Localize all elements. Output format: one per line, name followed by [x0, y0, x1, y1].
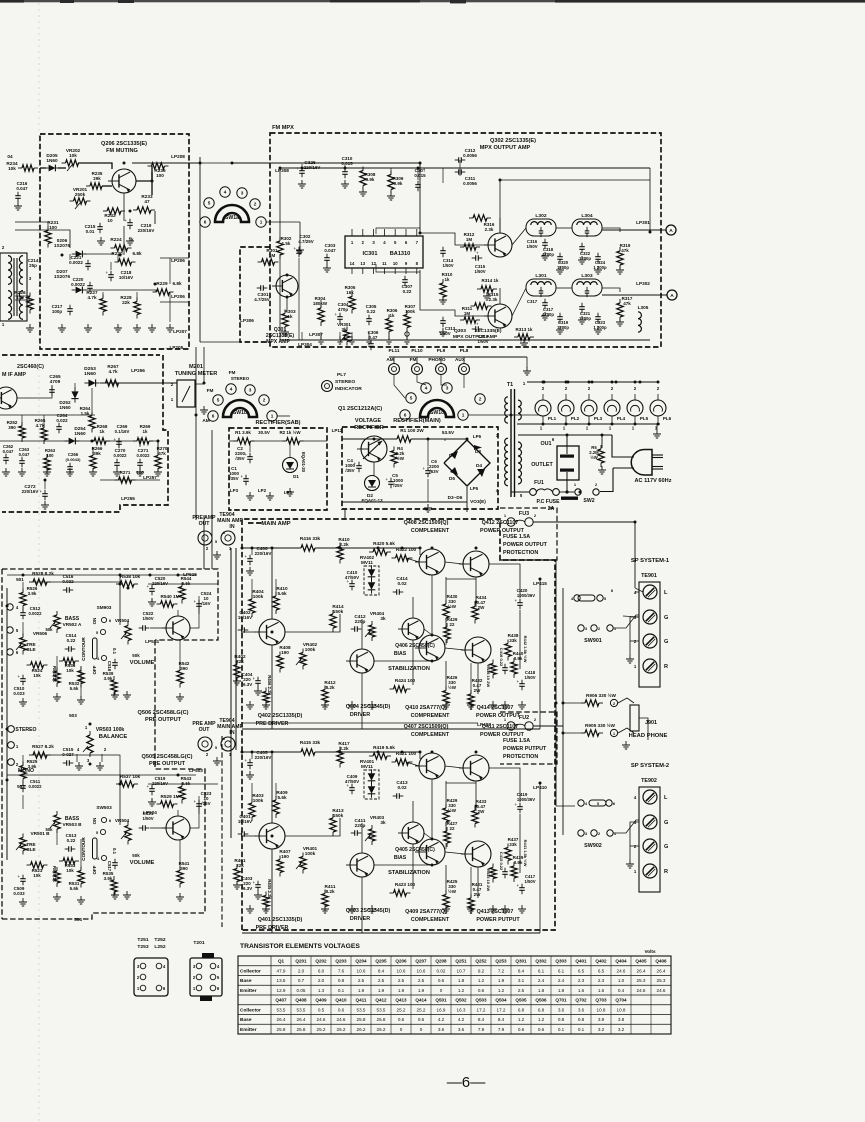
svg-text:25.2: 25.2 — [317, 1027, 326, 1032]
svg-text:8.4: 8.4 — [498, 1017, 505, 1022]
svg-text:2.3: 2.3 — [578, 978, 585, 983]
svg-text:LP206: LP206 — [171, 294, 185, 299]
svg-text:1N60: 1N60 — [59, 405, 71, 410]
svg-text:SP SYSTEM-1: SP SYSTEM-1 — [631, 558, 670, 564]
svg-text:10/16V: 10/16V — [238, 615, 252, 620]
svg-text:3k: 3k — [380, 616, 386, 621]
svg-text:POWER OUTPUT: POWER OUTPUT — [503, 542, 548, 548]
svg-text:Q408 2SC1509(Q): Q408 2SC1509(Q) — [404, 520, 449, 526]
svg-text:/16V: /16V — [201, 801, 210, 806]
svg-text:Base: Base — [240, 978, 252, 984]
svg-text:Q302 2SC1335(E): Q302 2SC1335(E) — [490, 138, 536, 144]
svg-text:LP208: LP208 — [171, 154, 185, 159]
svg-text:PL5: PL5 — [640, 416, 649, 421]
svg-text:2: 2 — [2, 245, 5, 250]
svg-text:1: 1 — [504, 513, 507, 518]
svg-text:2.5: 2.5 — [518, 988, 525, 993]
svg-text:6.0: 6.0 — [318, 968, 325, 973]
svg-text:17.2: 17.2 — [497, 1007, 506, 1012]
svg-text:1: 1 — [614, 626, 617, 631]
svg-text:6.8: 6.8 — [538, 1007, 545, 1012]
svg-text:C517: C517 — [107, 861, 112, 872]
svg-text:0: 0 — [420, 1027, 423, 1032]
svg-text:0.0022: 0.0022 — [114, 453, 128, 458]
svg-text:Collector: Collector — [240, 968, 261, 974]
svg-text:5: 5 — [208, 201, 211, 206]
svg-text:26.2: 26.2 — [357, 1027, 366, 1032]
svg-text:10.6: 10.6 — [357, 968, 366, 973]
svg-text:STABILIZATION: STABILIZATION — [388, 666, 430, 672]
svg-text:PL8: PL8 — [460, 348, 469, 353]
svg-text:0.1: 0.1 — [558, 1027, 565, 1032]
svg-text:R314 1k: R314 1k — [482, 278, 499, 283]
svg-text:4.7/25V: 4.7/25V — [254, 297, 269, 302]
svg-text:0.22: 0.22 — [67, 638, 76, 643]
svg-text:+: + — [517, 883, 520, 888]
svg-text:0.1: 0.1 — [112, 848, 117, 855]
svg-text:Volts: Volts — [644, 949, 656, 954]
svg-text:1.8: 1.8 — [538, 988, 545, 993]
svg-text:G: G — [664, 820, 668, 826]
svg-text:R527 8.2k: R527 8.2k — [32, 744, 54, 749]
svg-text:R419 5.6k: R419 5.6k — [373, 745, 395, 750]
svg-text:2: 2 — [565, 386, 568, 391]
svg-text:VO3(E): VO3(E) — [470, 499, 486, 504]
svg-text:4: 4 — [77, 747, 80, 752]
svg-text:AM: AM — [202, 418, 209, 423]
svg-text:FUSE 1.5A: FUSE 1.5A — [503, 534, 530, 540]
svg-text:1 200p: 1 200p — [593, 325, 607, 330]
svg-text:3.6: 3.6 — [578, 1007, 585, 1012]
svg-text:PL3: PL3 — [594, 416, 603, 421]
svg-text:+: + — [125, 218, 128, 223]
svg-text:T1: T1 — [507, 382, 513, 388]
svg-text:+: + — [515, 802, 518, 807]
svg-text:2: 2 — [104, 747, 107, 752]
svg-text:8: 8 — [416, 261, 419, 266]
svg-text:FM MUTING: FM MUTING — [106, 148, 138, 154]
svg-text:Q206: Q206 — [395, 959, 407, 964]
svg-text:R416 33k: R416 33k — [300, 536, 321, 541]
svg-text:COMPLEMENT: COMPLEMENT — [411, 528, 450, 534]
svg-text:2W: 2W — [478, 809, 485, 814]
svg-text:PL9: PL9 — [437, 348, 446, 353]
svg-text:1: 1 — [632, 426, 635, 431]
svg-text:Q252: Q252 — [475, 959, 487, 964]
svg-text:100p: 100p — [52, 309, 62, 314]
svg-text:33k: 33k — [509, 638, 517, 643]
svg-text:100k: 100k — [305, 851, 316, 856]
svg-text:Q1 2SC1212A(C): Q1 2SC1212A(C) — [338, 406, 382, 412]
svg-text:TE901: TE901 — [641, 573, 657, 579]
svg-text:+: + — [354, 461, 357, 466]
svg-text:6: 6 — [217, 986, 220, 991]
svg-text:T253: T253 — [137, 944, 148, 950]
svg-text:10.7: 10.7 — [457, 968, 466, 973]
svg-text:0.1: 0.1 — [112, 648, 117, 655]
svg-text:2.2k: 2.2k — [339, 542, 349, 547]
svg-text:50k: 50k — [132, 653, 140, 658]
svg-text:3: 3 — [249, 388, 252, 393]
svg-text:11: 11 — [382, 261, 387, 266]
svg-text:6.1: 6.1 — [538, 968, 545, 973]
svg-text:LP301: LP301 — [636, 220, 650, 225]
svg-text:3.8: 3.8 — [598, 1017, 605, 1022]
svg-text:2: 2 — [534, 717, 537, 722]
svg-text:10.8: 10.8 — [617, 1007, 626, 1012]
svg-text:1k: 1k — [100, 429, 105, 434]
svg-text:4.2: 4.2 — [458, 1017, 465, 1022]
svg-text:IN: IN — [229, 730, 234, 736]
svg-text:+: + — [515, 598, 518, 603]
svg-text:AC 117V 60Hz: AC 117V 60Hz — [634, 478, 671, 484]
svg-text:Q406: Q406 — [655, 959, 667, 964]
svg-text:4: 4 — [230, 387, 233, 392]
svg-text:PRE OUTPUT: PRE OUTPUT — [149, 761, 186, 767]
svg-text:29k: 29k — [93, 176, 101, 181]
svg-text:Q413: Q413 — [395, 998, 407, 1003]
svg-text:0.6: 0.6 — [438, 978, 445, 983]
svg-text:0.047: 0.047 — [324, 248, 336, 253]
svg-text:Q1: Q1 — [278, 959, 285, 964]
svg-text:1/50V: 1/50V — [524, 675, 535, 680]
svg-text:390: 390 — [180, 666, 188, 671]
svg-text:5: 5 — [215, 539, 218, 544]
svg-text:12.9: 12.9 — [277, 988, 286, 993]
svg-text:0: 0 — [440, 988, 443, 993]
svg-text:0.6: 0.6 — [518, 1027, 525, 1032]
svg-text:1: 1 — [634, 869, 637, 874]
svg-text:470p: 470p — [338, 307, 348, 312]
svg-text:6.8: 6.8 — [518, 1007, 525, 1012]
svg-text:24.6: 24.6 — [617, 968, 626, 973]
svg-text:+: + — [147, 784, 150, 789]
svg-text:STEREO: STEREO — [15, 727, 36, 733]
svg-text:2: 2 — [193, 975, 196, 980]
svg-text:5: 5 — [410, 396, 413, 401]
svg-text:MPX OUTPUT AMP: MPX OUTPUT AMP — [480, 145, 531, 151]
svg-text:5.6k: 5.6k — [70, 686, 79, 691]
svg-text:OUT: OUT — [199, 727, 211, 733]
svg-text:R441 1.5k ½W: R441 1.5k ½W — [523, 840, 528, 867]
svg-text:0.015: 0.015 — [341, 161, 353, 166]
svg-text:2.4: 2.4 — [538, 978, 545, 983]
svg-text:1M: 1M — [466, 237, 472, 242]
svg-text:Q401 2SC1335(D): Q401 2SC1335(D) — [258, 917, 303, 923]
svg-text:LP407: LP407 — [477, 722, 491, 727]
svg-text:6: 6 — [223, 530, 226, 535]
svg-text:LP302: LP302 — [636, 281, 650, 286]
svg-text:7.9: 7.9 — [478, 1027, 485, 1032]
svg-text:7.6: 7.6 — [338, 968, 345, 973]
svg-text:1.2: 1.2 — [478, 978, 485, 983]
svg-text:1.9: 1.9 — [498, 978, 505, 983]
svg-text:2.5: 2.5 — [358, 978, 365, 983]
svg-text:9: 9 — [405, 261, 408, 266]
svg-text:10.6: 10.6 — [417, 968, 426, 973]
svg-text:1200p: 1200p — [557, 265, 569, 270]
svg-text:PL11: PL11 — [389, 348, 400, 353]
svg-text:220/16V: 220/16V — [22, 489, 39, 494]
svg-text:2: 2 — [206, 546, 209, 551]
svg-text:390: 390 — [8, 425, 16, 430]
svg-text:PL6: PL6 — [663, 416, 672, 421]
svg-text:0.8: 0.8 — [578, 1017, 585, 1022]
svg-text:LP503: LP503 — [189, 768, 203, 773]
svg-text:2: 2 — [634, 386, 637, 391]
svg-text:+: + — [253, 676, 256, 681]
svg-text:+: + — [18, 674, 21, 679]
svg-text:4: 4 — [97, 656, 100, 661]
svg-text:6: 6 — [552, 437, 555, 442]
svg-text:53.5: 53.5 — [277, 1007, 286, 1012]
svg-text:R: R — [664, 664, 668, 670]
svg-text:190: 190 — [281, 650, 289, 655]
svg-text:0.047: 0.047 — [16, 186, 28, 191]
svg-text:4: 4 — [97, 856, 100, 861]
svg-text:1: 1 — [613, 731, 616, 736]
svg-text:4.7k: 4.7k — [36, 423, 45, 428]
svg-text:+: + — [194, 799, 197, 804]
svg-text:5: 5 — [217, 398, 220, 403]
svg-text:D3~D6: D3~D6 — [448, 495, 463, 500]
svg-text:—6—: —6— — [447, 1074, 487, 1091]
svg-text:+: + — [517, 679, 520, 684]
svg-text:5: 5 — [215, 745, 218, 750]
svg-text:Q407 2SC1509(Q): Q407 2SC1509(Q) — [404, 724, 449, 730]
svg-text:5: 5 — [394, 240, 397, 245]
svg-text:R1 100 2W: R1 100 2W — [400, 428, 424, 433]
svg-text:1.6: 1.6 — [598, 988, 605, 993]
svg-text:1.5k: 1.5k — [282, 241, 291, 246]
svg-text:Q505: Q505 — [515, 998, 527, 1003]
svg-text:Base: Base — [240, 1017, 252, 1023]
svg-text:26.4: 26.4 — [637, 968, 646, 973]
svg-text:Q205: Q205 — [375, 959, 387, 964]
svg-text:Q504: Q504 — [495, 998, 507, 1003]
svg-text:VR504: VR504 — [115, 818, 130, 823]
svg-text:7: 7 — [416, 240, 419, 245]
svg-text:←LP205: ←LP205 — [165, 345, 184, 350]
svg-text:+: + — [194, 599, 197, 604]
svg-text:½W: ½W — [448, 684, 457, 690]
svg-text:3: 3 — [241, 191, 244, 196]
svg-text:6: 6 — [404, 413, 407, 418]
svg-text:Q402 2SC1335(D): Q402 2SC1335(D) — [258, 713, 303, 719]
svg-text:1: 1 — [16, 744, 19, 749]
svg-text:Emitter: Emitter — [240, 988, 257, 994]
svg-text:0.033: 0.033 — [13, 891, 25, 896]
svg-text:Q407: Q407 — [275, 998, 287, 1003]
svg-text:1 200p: 1 200p — [593, 265, 607, 270]
svg-text:2.5: 2.5 — [378, 978, 385, 983]
svg-text:6.1: 6.1 — [558, 968, 565, 973]
svg-text:Q303: Q303 — [454, 328, 466, 334]
svg-text:0.02: 0.02 — [397, 581, 407, 586]
svg-text:4: 4 — [224, 190, 227, 195]
svg-text:LP256: LP256 — [131, 368, 145, 373]
svg-text:/6.3V: /6.3V — [242, 886, 252, 891]
svg-text:+: + — [253, 880, 256, 885]
svg-text:2: 2 — [263, 398, 266, 403]
svg-text:4709: 4709 — [50, 379, 61, 384]
svg-text:25.8: 25.8 — [377, 1017, 386, 1022]
svg-text:10: 10 — [393, 261, 398, 266]
svg-text:1: 1 — [85, 725, 88, 730]
svg-text:6: 6 — [212, 414, 215, 419]
svg-text:Q409: Q409 — [315, 998, 327, 1003]
svg-text:30.5V: 30.5V — [258, 430, 270, 435]
svg-text:100: 100 — [49, 225, 57, 230]
svg-text:Q414: Q414 — [415, 998, 427, 1003]
svg-text:POWER OUTPUT: POWER OUTPUT — [476, 713, 521, 719]
svg-text:P.C FUSE: P.C FUSE — [536, 499, 560, 505]
svg-text:/35V: /35V — [229, 476, 238, 481]
svg-text:+: + — [245, 452, 248, 457]
svg-text:4.2: 4.2 — [438, 1017, 445, 1022]
svg-text:0.0022: 0.0022 — [29, 611, 43, 616]
svg-text:RECTIFIER(MAIN): RECTIFIER(MAIN) — [393, 418, 441, 424]
svg-text:26.4: 26.4 — [277, 1017, 286, 1022]
svg-text:250k: 250k — [75, 192, 86, 197]
svg-text:Q414 2SC1107: Q414 2SC1107 — [477, 705, 514, 711]
svg-text:6.8k: 6.8k — [172, 281, 182, 286]
svg-text:1: 1 — [2, 322, 5, 327]
svg-text:16.9: 16.9 — [437, 1007, 446, 1012]
svg-text:0.0056: 0.0056 — [463, 181, 477, 186]
svg-text:3: 3 — [446, 386, 449, 391]
svg-text:53.5V: 53.5V — [442, 430, 455, 435]
svg-text:7.2: 7.2 — [498, 968, 505, 973]
svg-text:SW1c: SW1c — [430, 410, 444, 416]
svg-text:2: 2 — [598, 626, 601, 631]
svg-text:3: 3 — [585, 831, 588, 836]
svg-text:3.9k: 3.9k — [514, 656, 523, 661]
svg-text:10.6: 10.6 — [397, 968, 406, 973]
svg-text:220/16V: 220/16V — [152, 581, 168, 586]
svg-text:1.8: 1.8 — [458, 978, 465, 983]
svg-text:1k: 1k — [128, 237, 134, 242]
svg-text:Q506: Q506 — [535, 998, 547, 1003]
svg-text:0.8: 0.8 — [338, 978, 345, 983]
svg-text:/16V: /16V — [201, 601, 210, 606]
svg-text:VR503 100k: VR503 100k — [96, 727, 125, 733]
svg-text:+: + — [335, 312, 338, 317]
svg-text:2W: 2W — [474, 688, 481, 693]
svg-text:LP515: LP515 — [183, 572, 197, 577]
svg-text:10k: 10k — [66, 868, 74, 873]
svg-text:3k: 3k — [380, 820, 386, 825]
svg-text:53.5: 53.5 — [357, 1007, 366, 1012]
svg-text:100k: 100k — [253, 594, 264, 599]
svg-text:Emitter: Emitter — [240, 1027, 257, 1033]
svg-text:47k: 47k — [623, 301, 631, 306]
svg-text:0.6: 0.6 — [398, 1017, 405, 1022]
svg-text:MV11: MV11 — [361, 560, 373, 565]
svg-text:R529 1M: R529 1M — [160, 794, 179, 799]
svg-text:/6.3V: /6.3V — [242, 682, 252, 687]
svg-text:+: + — [347, 579, 350, 584]
svg-text:CONTOUR: CONTOUR — [81, 837, 86, 861]
svg-text:3: 3 — [193, 964, 196, 969]
svg-text:1N60: 1N60 — [74, 431, 86, 436]
svg-text:BA1310: BA1310 — [390, 251, 411, 257]
svg-text:Q204: Q204 — [355, 959, 367, 964]
svg-text:C317: C317 — [527, 299, 538, 304]
svg-text:OUTLET: OUTLET — [531, 462, 553, 468]
svg-text:R424 100: R424 100 — [395, 678, 416, 683]
svg-text:5.6k: 5.6k — [70, 886, 79, 891]
svg-text:Q409 2SA777(Q): Q409 2SA777(Q) — [405, 909, 447, 915]
svg-text:POWER PUTPUT: POWER PUTPUT — [476, 917, 520, 923]
svg-text:2: 2 — [598, 831, 601, 836]
svg-text:16k: 16k — [346, 290, 354, 295]
svg-text:220/16V: 220/16V — [138, 228, 155, 233]
svg-text:1: 1 — [614, 831, 617, 836]
svg-text:Q251: Q251 — [455, 959, 467, 964]
svg-text:IN: IN — [229, 524, 234, 530]
svg-text:LP207: LP207 — [173, 329, 187, 334]
svg-text:25.3: 25.3 — [657, 978, 666, 983]
svg-text:17.2: 17.2 — [477, 1007, 486, 1012]
svg-text:0.1: 0.1 — [578, 1027, 585, 1032]
svg-text:10/16V: 10/16V — [119, 275, 133, 280]
svg-text:T251: T251 — [137, 937, 148, 943]
svg-text:PL2: PL2 — [571, 416, 580, 421]
svg-text:VOLUME: VOLUME — [130, 860, 155, 866]
svg-text:10k: 10k — [33, 873, 41, 878]
svg-text:/25V: /25V — [393, 483, 402, 488]
svg-text:4: 4 — [217, 964, 220, 969]
svg-text:L303: L303 — [581, 273, 592, 279]
svg-text:5: 5 — [604, 596, 607, 601]
svg-text:1M: 1M — [269, 253, 276, 258]
svg-text:1k: 1k — [143, 429, 148, 434]
svg-text:04: 04 — [7, 154, 13, 159]
svg-text:G: G — [664, 639, 668, 645]
svg-text:SW901: SW901 — [584, 638, 602, 644]
svg-text:L302: L302 — [535, 213, 546, 219]
svg-text:4: 4 — [585, 801, 588, 806]
svg-text:6.8k: 6.8k — [132, 251, 142, 256]
svg-text:AM: AM — [386, 357, 393, 362]
svg-text:3.2: 3.2 — [598, 1027, 605, 1032]
svg-text:INDICATOR: INDICATOR — [335, 386, 362, 392]
svg-text:LP206: LP206 — [171, 258, 185, 263]
svg-text:FUSE 1.5A: FUSE 1.5A — [503, 738, 530, 744]
svg-text:PL10: PL10 — [411, 348, 423, 353]
svg-text:10.8: 10.8 — [597, 1007, 606, 1012]
svg-text:FM: FM — [207, 388, 214, 393]
svg-text:Q404: Q404 — [615, 959, 627, 964]
svg-text:PL1: PL1 — [548, 416, 557, 421]
svg-text:VR502 A: VR502 A — [63, 622, 82, 627]
svg-text:4.7k: 4.7k — [108, 369, 118, 374]
svg-text:190: 190 — [281, 854, 289, 859]
svg-text:D1: D1 — [293, 474, 299, 479]
svg-text:33k: 33k — [509, 842, 517, 847]
svg-text:1: 1 — [609, 426, 612, 431]
svg-text:6: 6 — [613, 801, 616, 806]
svg-text:1200p: 1200p — [557, 325, 569, 330]
svg-text:Q412 2SC1107: Q412 2SC1107 — [482, 520, 519, 526]
svg-text:R: R — [664, 869, 668, 875]
svg-text:OFF: OFF — [92, 665, 97, 674]
svg-text:FU3: FU3 — [519, 511, 529, 517]
svg-text:0.8: 0.8 — [558, 1017, 565, 1022]
svg-text:G: G — [664, 844, 668, 850]
svg-text:0.02: 0.02 — [437, 968, 446, 973]
